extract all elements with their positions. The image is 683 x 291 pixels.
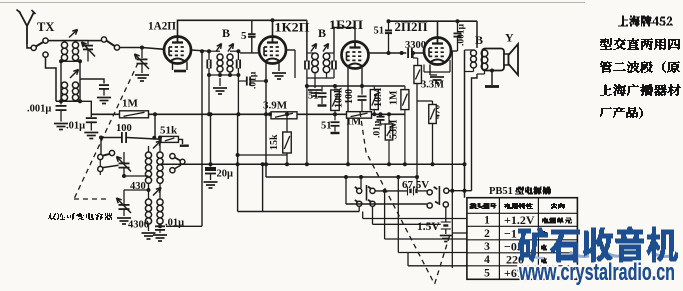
- svg-text:.01μ: .01μ: [249, 71, 259, 89]
- svg-text:Y: Y: [505, 31, 514, 45]
- svg-text:4300: 4300: [128, 219, 149, 230]
- svg-text:10M: 10M: [373, 87, 384, 107]
- svg-text:1К2П: 1К2П: [275, 21, 310, 35]
- svg-text:1.5V: 1.5V: [417, 221, 440, 233]
- svg-text:100k: 100k: [334, 87, 345, 108]
- svg-text:51: 51: [374, 26, 385, 37]
- svg-text:1M: 1M: [122, 98, 139, 110]
- svg-text:15k: 15k: [269, 134, 280, 150]
- svg-text:B: B: [318, 26, 326, 40]
- svg-text:100: 100: [116, 123, 132, 134]
- svg-text:5: 5: [241, 30, 247, 42]
- svg-text:2: 2: [484, 228, 490, 240]
- svg-text:B: B: [475, 33, 483, 47]
- svg-text:.001μ: .001μ: [27, 104, 51, 115]
- svg-text:5: 5: [484, 268, 490, 280]
- svg-text:3: 3: [484, 241, 490, 253]
- svg-text:B: B: [222, 26, 230, 40]
- svg-text:+1.2V: +1.2V: [504, 213, 535, 227]
- svg-text:53M: 53M: [389, 119, 400, 139]
- svg-text:.01μ: .01μ: [66, 121, 85, 132]
- svg-text:3.3M: 3.3M: [421, 80, 444, 91]
- svg-text:−1: −1: [504, 227, 517, 241]
- svg-text:20μ: 20μ: [217, 169, 234, 180]
- svg-text:2П2П: 2П2П: [395, 20, 428, 34]
- svg-text:PB51: PB51: [489, 186, 513, 197]
- svg-text:www.crystalradio.cn: www.crystalradio.cn: [518, 259, 675, 286]
- svg-text:−0.: −0.: [504, 240, 520, 254]
- svg-text:100: 100: [344, 89, 355, 104]
- svg-text:51: 51: [308, 91, 319, 102]
- svg-text:4: 4: [484, 254, 490, 266]
- svg-text:51k: 51k: [160, 125, 178, 137]
- svg-text:51: 51: [321, 121, 332, 132]
- svg-text:1А2П: 1А2П: [148, 19, 177, 33]
- svg-text:TX: TX: [37, 20, 54, 34]
- svg-text:1: 1: [484, 215, 490, 227]
- svg-text:1M: 1M: [389, 90, 400, 105]
- svg-text:3.9M: 3.9M: [263, 100, 288, 112]
